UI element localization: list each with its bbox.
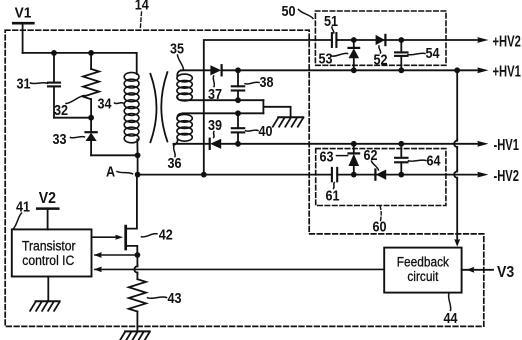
svg-text:51: 51 (324, 12, 338, 29)
capacitor 51 (332, 33, 338, 47)
label A with leader (106, 162, 133, 179)
wire node A rail / -HV2 rail (138, 174, 482, 176)
svg-text:+HV2: +HV2 (493, 31, 522, 50)
label 14 with dashed leader (135, 0, 149, 29)
wire +HV1 to feedback circuit (454, 70, 457, 240)
transformer core (150, 72, 167, 142)
wire secondary 35 top / +HV1 rail (181, 69, 482, 71)
inductor 34 (transformer primary winding) (124, 53, 139, 155)
label +HV1 (493, 62, 522, 81)
junction dot C64 top (398, 141, 404, 147)
dashed box 60 (negative voltage doubler) (316, 149, 446, 206)
dashed box 50 (positive voltage doubler) (315, 11, 446, 65)
arrow gate drive (115, 235, 123, 240)
svg-text:41: 41 (16, 197, 30, 214)
transistor control IC block 41 (12, 229, 92, 276)
label 39 with leader (208, 116, 222, 138)
label 35 with leader (170, 39, 184, 69)
ground (source resistor) (120, 331, 150, 340)
feedback circuit block 44 (384, 248, 461, 293)
svg-text:61: 61 (326, 186, 340, 203)
svg-text:43: 43 (168, 289, 182, 306)
wire D33 to primary bottom (91, 154, 138, 156)
junction dot D39 / C40 (235, 141, 241, 147)
capacitor 54 (395, 40, 407, 70)
svg-text:33: 33 (52, 130, 66, 147)
label 42 with leader (142, 225, 174, 242)
label V3 (497, 263, 514, 281)
label 51 with leader (324, 12, 338, 33)
junction dot C40 top (235, 110, 241, 116)
svg-text:V1: V1 (15, 5, 32, 22)
junction dot D63 top (351, 141, 357, 147)
label 52 with leader (373, 46, 387, 68)
wire source to resistor 43 (134, 255, 137, 279)
resistor 43 (129, 279, 146, 331)
diode 63 (349, 144, 360, 175)
junction dot C54 bottom (398, 67, 404, 73)
label 43 with leader (148, 289, 182, 306)
label 38 with leader (245, 73, 274, 90)
label -HV1 (494, 135, 520, 154)
supply V2 terminal (37, 189, 58, 229)
diode 33 (86, 118, 97, 156)
svg-text:63: 63 (320, 147, 334, 164)
svg-text:circuit: circuit (407, 268, 438, 284)
label 41 with leader (14, 197, 31, 228)
label 64 with leader (409, 151, 441, 168)
ground (center tap) (273, 117, 304, 127)
junction dot bus / node A rail (201, 172, 207, 178)
svg-text:42: 42 (159, 225, 173, 242)
wire top rail (23, 52, 137, 54)
resistor 32 (83, 53, 99, 118)
svg-text:60: 60 (373, 217, 387, 234)
svg-text:14: 14 (135, 0, 149, 13)
svg-text:A: A (106, 162, 115, 179)
junction dot source node (135, 252, 141, 258)
svg-text:38: 38 (260, 73, 274, 90)
dashed box 14 (power supply unit outline) (5, 30, 484, 326)
label 54 with leader (408, 44, 440, 61)
svg-text:50: 50 (282, 2, 296, 19)
wire feedback to control IC (95, 268, 384, 270)
junction dot D37 / C38 (235, 67, 241, 73)
diode 62 (375, 170, 386, 180)
+HV1 output arrow (477, 67, 488, 73)
svg-text:+HV1: +HV1 (493, 62, 522, 81)
junction dot C64 bottom (398, 172, 404, 178)
label 36 with leader (168, 147, 182, 172)
junction dot primary bottom (135, 152, 141, 158)
wire primary bottom to node A (137, 155, 139, 174)
supply V1 terminal (13, 5, 33, 53)
label 44 with leader (444, 294, 458, 326)
svg-text:31: 31 (17, 74, 31, 91)
label 31 with leader (17, 74, 48, 91)
svg-text:35: 35 (170, 39, 184, 56)
wire secondary 36 top (183, 112, 263, 114)
diode 39 (210, 139, 222, 149)
junction dot top rail / C31 (51, 50, 57, 56)
svg-text:V2: V2 (39, 189, 56, 207)
node A junction dot (135, 172, 141, 178)
label 61 with leader (326, 183, 340, 204)
svg-text:control IC: control IC (22, 252, 74, 268)
label 32 with leader (54, 96, 85, 119)
-HV1 output arrow (477, 141, 488, 147)
arrow source sense into IC (94, 252, 102, 258)
capacitor 61 (332, 168, 338, 181)
label -HV2 (494, 166, 520, 185)
diode 53 (349, 40, 360, 70)
arrow V3 into feedback (466, 267, 474, 273)
wire V3 input (462, 269, 493, 271)
junction dot C38 bottom (235, 97, 241, 103)
-HV2 output arrow (477, 172, 488, 178)
junction dot D53 top (351, 37, 357, 43)
svg-text:39: 39 (208, 116, 222, 133)
label +HV2 (493, 31, 522, 50)
svg-text:34: 34 (98, 94, 112, 111)
ground (control IC) (30, 301, 59, 311)
diode 52 (376, 35, 386, 45)
junction dot top rail / R32 (88, 50, 94, 56)
label 34 with leader (98, 94, 124, 111)
junction dot +HV1 / feedback tap (454, 67, 460, 73)
svg-text:44: 44 (444, 309, 458, 326)
svg-text:-HV1: -HV1 (494, 135, 520, 154)
svg-text:V3: V3 (497, 263, 514, 281)
label 37 with leader (208, 76, 222, 102)
wire +HV2 rail (337, 39, 481, 41)
transistor 42 (MOSFET) (126, 175, 138, 255)
capacitor 31 (48, 53, 60, 118)
svg-text:54: 54 (425, 44, 439, 61)
label 62 with leader (363, 146, 378, 170)
capacitor 40 (232, 113, 244, 144)
wire center-tap to ground (263, 107, 290, 117)
inductor 36 (transformer secondary winding, lower) (174, 113, 193, 145)
label 40 with leader (246, 122, 273, 139)
wire center-tap join (262, 100, 264, 113)
diode 37 (210, 65, 221, 75)
arrow feedback into IC (94, 267, 102, 273)
capacitor 38 (232, 70, 244, 100)
svg-text:40: 40 (259, 122, 273, 139)
label 33 with leader (52, 130, 84, 147)
wire charge-pump bus (204, 40, 332, 175)
label 53 with leader (319, 49, 348, 66)
junction dot C54 top (398, 37, 404, 43)
capacitor 64 (395, 144, 407, 175)
wire IC to ground (47, 277, 49, 302)
junction dot D63 bottom (351, 172, 357, 178)
label 63 with leader (320, 147, 348, 164)
svg-text:-HV2: -HV2 (494, 166, 520, 185)
junction dot D53 bottom (351, 67, 357, 73)
svg-text:64: 64 (426, 151, 440, 168)
junction dot node C31/R32/D33 (88, 115, 94, 121)
+HV2 output arrow (477, 37, 488, 43)
label 60 with dashed leader (373, 207, 387, 235)
wire secondary 36 bottom / -HV1 rail (174, 143, 482, 145)
svg-text:53: 53 (319, 49, 333, 66)
inductor 35 (transformer secondary winding, upper) (177, 70, 192, 101)
wire source sense (95, 254, 137, 256)
wire secondary 35 bottom (181, 99, 263, 101)
label 50 with leader (282, 2, 314, 19)
arrow into feedback circuit (454, 239, 460, 247)
wire C31 bottom to R32 node (54, 117, 91, 119)
wire gate drive (92, 236, 118, 238)
